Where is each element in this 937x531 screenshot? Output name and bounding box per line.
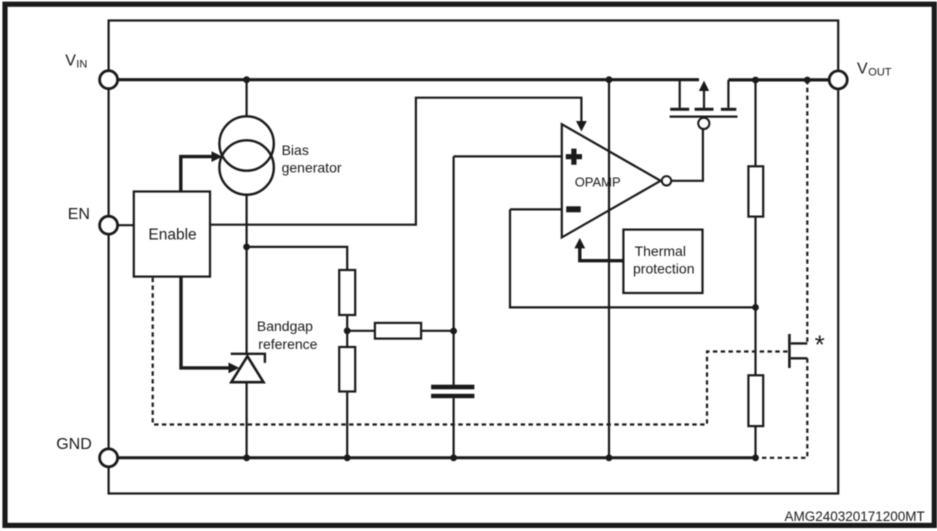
wire: opamp output to PMOS gate: [671, 130, 703, 181]
node: cap GND dot: [450, 454, 457, 461]
node: VOUT rail dashed dot: [804, 77, 811, 84]
svg-text:Thermal: Thermal: [635, 243, 686, 259]
PMOS source contact bar: [670, 108, 689, 111]
PMOS body arrow up: [703, 86, 705, 108]
resistor R4 lower left divider: [339, 347, 355, 392]
bias generator current-source circles: [219, 116, 273, 170]
svg-text:Bandgap: Bandgap: [257, 318, 313, 334]
arrowhead into bandgap reference: [229, 363, 240, 374]
node: crossing vertical top dot: [606, 76, 613, 83]
svg-text:Bias: Bias: [282, 142, 309, 158]
wire: bias generator bottom lead down to bandgap: [246, 194, 248, 354]
svg-text:reference: reference: [258, 336, 317, 352]
op-amp output bubble: [662, 176, 671, 185]
svg-text:generator: generator: [282, 160, 342, 176]
wire: R1 top lead: [754, 80, 756, 166]
wire: feedback from divider tap to - input: [510, 209, 756, 307]
PMOS gate line: [670, 115, 738, 117]
op-amp + symbol: [566, 149, 582, 165]
wire: opamp + input horizontal: [454, 155, 562, 157]
capacitor C1 plates: [431, 385, 474, 390]
wire: EN terminal to Enable block: [118, 224, 134, 226]
svg-text:EN: EN: [68, 206, 90, 223]
node: left divider GND dot: [344, 454, 351, 461]
svg-text:IN: IN: [76, 59, 87, 71]
wire: cap bottom to GND: [453, 398, 455, 458]
wire: VIN rail from terminal to PMOS source: [118, 78, 699, 81]
bandgap zener triangle: [231, 356, 263, 382]
node: right divider tap dot: [752, 304, 759, 311]
arrowhead into opamp top: [576, 121, 587, 132]
node: cap node dot: [450, 328, 457, 335]
svg-text:AMG240320171200MT: AMG240320171200MT: [784, 509, 924, 524]
block Enable: [134, 192, 210, 277]
dashed wire: VOUT rail to NMOS drain: [806, 80, 808, 343]
resistor R3 upper left divider: [339, 270, 355, 315]
node: VOUT rail R1 dot: [752, 77, 759, 84]
dashed wire: Enable bottom to NMOS gate: [153, 278, 789, 425]
wire: VOUT rail from PMOS drain to VOUT terminal: [728, 78, 829, 81]
wire: horizontal resistor to cap node: [421, 330, 454, 332]
wire: Enable top to bias generator arrow: [181, 157, 214, 192]
wire: opamp - input horizontal: [510, 208, 562, 210]
op-amp - symbol: [566, 206, 581, 212]
wire: Enable bottom to bandgap arrow: [181, 277, 229, 368]
resistor R2 lower right: [748, 375, 763, 426]
resistor R1 upper right: [748, 166, 763, 216]
terminal GND: [100, 449, 118, 467]
wire: bias generator top lead: [246, 80, 248, 117]
op-amp U1 triangle: [562, 124, 661, 237]
dashed wire: NMOS source to GND: [756, 358, 808, 458]
wire: GND rail: [118, 456, 756, 459]
PMOS drain lead: [727, 80, 729, 108]
wire: bandgap to GND: [246, 382, 248, 458]
PMOS gate bubble: [698, 118, 709, 129]
NMOS source bar: [791, 357, 808, 359]
node: bias/bandgap/divider junction dot: [243, 244, 250, 251]
wire: opamp + input node vertical: [453, 156, 455, 385]
chip boundary rectangle: [109, 21, 839, 494]
wire: crossing vertical VIN to GND: [608, 80, 610, 458]
node: R2 GND dot: [752, 454, 759, 461]
arrowhead into bias generator: [212, 151, 223, 162]
wire: tap to horizontal resistor: [347, 330, 375, 332]
node: left divider tap dot: [344, 327, 351, 334]
PMOS source lead: [679, 80, 681, 108]
svg-text:V: V: [65, 53, 76, 70]
terminal VOUT: [829, 71, 847, 89]
svg-text:OPAMP: OPAMP: [575, 175, 621, 190]
PMOS body contact bar: [695, 108, 714, 111]
NMOS drain bar: [791, 342, 808, 344]
svg-text:protection: protection: [633, 260, 694, 276]
bandgap zener bar: [231, 354, 265, 363]
wire: Enable output to opamp top arrow: [210, 98, 581, 225]
svg-text:OUT: OUT: [868, 66, 892, 78]
PMOS drain contact bar: [721, 108, 736, 111]
wire: R4 to GND: [346, 392, 348, 458]
terminal EN: [100, 216, 118, 234]
svg-text:V: V: [857, 61, 868, 78]
svg-text:GND: GND: [56, 436, 92, 453]
wire: R3 to R4: [346, 315, 348, 347]
resistor R5 horizontal: [375, 323, 421, 339]
terminal VIN: [100, 71, 118, 89]
transistor Q2 NMOS gate plate: [788, 334, 791, 368]
wire: R2 bottom to GND: [754, 426, 756, 458]
wire: junction to left divider top: [247, 247, 348, 270]
wire: R1 bottom to tap: [754, 217, 756, 376]
node: bandgap GND dot: [243, 454, 250, 461]
node: crossing vertical bottom dot: [606, 454, 613, 461]
arrowhead into opamp bottom: [574, 238, 585, 248]
node: VIN/bias junction dot: [243, 76, 250, 83]
thermal protection block: [623, 230, 702, 293]
svg-text:*: *: [815, 330, 825, 360]
svg-text:Enable: Enable: [148, 227, 196, 244]
wire: thermal protection to opamp arrow: [580, 246, 624, 261]
